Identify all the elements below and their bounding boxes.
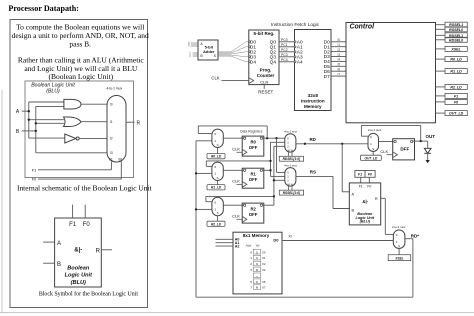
svg-text:I7: I7 <box>337 72 340 76</box>
select label R0_LD <box>207 154 225 159</box>
wire Q0 down to RS in0 <box>277 138 285 172</box>
wire R2 feedback top <box>206 195 274 197</box>
junction OUT <box>420 140 422 142</box>
svg-text:RS: RS <box>310 169 316 174</box>
svg-text:R: R <box>96 248 101 254</box>
wire B stub <box>43 262 55 264</box>
svg-text:&|-: &|- <box>74 248 82 254</box>
wires PC0-PC4 <box>279 38 295 62</box>
svg-text:X0: X0 <box>262 250 266 254</box>
svg-text:1: 1 <box>250 256 252 260</box>
svg-text:I1: I1 <box>337 43 340 47</box>
control output OUT_LD <box>445 111 467 116</box>
svg-text:3: 3 <box>250 268 252 272</box>
wire CLK R2 <box>237 218 243 220</box>
wire control RSSEL1 <box>436 24 446 26</box>
svg-text:F1: F1 <box>69 222 77 228</box>
control output RSSEL0 <box>445 27 467 32</box>
program counter register U-pc <box>249 30 279 85</box>
wire bottom loop <box>196 296 413 298</box>
wire control F0 <box>436 101 446 103</box>
select label RDSEL <box>279 156 303 161</box>
svg-text:R0_LD: R0_LD <box>211 155 222 159</box>
junction A-OR <box>28 119 30 121</box>
BLU block symbol U-left <box>55 218 102 287</box>
wire Q0 to RD mux <box>267 137 285 139</box>
LED indicator <box>424 141 431 163</box>
svg-text:Prog.: Prog. <box>260 67 272 72</box>
clock triangle OUT <box>393 152 398 158</box>
svg-text:I2: I2 <box>337 48 340 52</box>
svg-text:B: B <box>57 262 61 268</box>
wire A input <box>22 110 29 112</box>
svg-text:S: S <box>398 244 400 248</box>
scan artifact left <box>1 90 3 313</box>
wire R2 mux in1 <box>196 208 212 210</box>
register R2 DFF <box>242 203 264 223</box>
svg-text:0: 0 <box>189 56 191 58</box>
svg-text:1: 1 <box>256 250 258 254</box>
svg-text:D4: D4 <box>250 60 256 66</box>
svg-text:F1: F1 <box>358 173 362 177</box>
svg-text:0: 0 <box>256 286 258 290</box>
wire RD to BLU A <box>342 144 349 192</box>
input mux 2-to-1 R0 <box>212 129 223 147</box>
junction bus R1 <box>195 172 197 174</box>
wire control XSEL <box>436 48 446 50</box>
svg-text:32x8: 32x8 <box>308 93 319 98</box>
junction A <box>28 110 30 112</box>
svg-text:X3: X3 <box>262 268 266 272</box>
control output RSSEL1 <box>445 22 467 27</box>
block symbol name <box>65 265 93 286</box>
4-to-1 mux (internal BLU) <box>107 96 126 163</box>
svg-text:S0: S0 <box>118 157 122 161</box>
paragraph 2 <box>18 55 144 81</box>
svg-text:I5: I5 <box>337 63 340 67</box>
svg-text:7: 7 <box>250 286 252 290</box>
select label XSEL <box>388 255 411 261</box>
svg-text:R1_LD: R1_LD <box>211 186 222 190</box>
wire RD mux selects <box>289 151 292 156</box>
select label OUT_LD <box>361 155 382 160</box>
NOT gate <box>65 134 79 143</box>
svg-text:F0: F0 <box>368 173 372 177</box>
wire RS mux selects <box>289 185 292 190</box>
control output RDSEL0 <box>445 37 467 42</box>
wire out mux select <box>372 151 374 155</box>
svg-text:pass B.: pass B. <box>69 39 91 48</box>
svg-text:RDSEL[1:0]: RDSEL[1:0] <box>283 157 301 161</box>
wire B pass to mux I3 <box>36 152 107 154</box>
svg-text:I1: I1 <box>110 120 113 124</box>
svg-text:2-to-1 mux: 2-to-1 mux <box>368 128 382 132</box>
junction Q0 to RS <box>275 137 277 139</box>
wire R2 Q out <box>263 204 274 206</box>
BLU internal schematic title <box>31 82 75 94</box>
wire A riser <box>29 102 64 138</box>
svg-text:RESET: RESET <box>258 90 273 95</box>
select label RSSEL <box>279 190 303 195</box>
wire R1 Q out <box>263 169 271 171</box>
wire R stub <box>101 249 112 251</box>
junction bus R2 <box>195 208 197 210</box>
control output R1_LD <box>445 69 467 74</box>
pc clock triangle <box>249 78 254 84</box>
wire B to OR <box>36 122 64 124</box>
wire control RSSEL0 <box>436 28 446 30</box>
svg-text:(BLU): (BLU) <box>71 280 86 286</box>
svg-text:X1: X1 <box>262 256 266 260</box>
svg-text:Instruction: Instruction <box>301 99 325 104</box>
svg-text:DFF: DFF <box>249 212 258 217</box>
scan artifact bottom <box>0 312 474 314</box>
svg-text:CLK: CLK <box>232 179 240 184</box>
control output F1 <box>445 93 467 98</box>
svg-text:B: B <box>16 129 20 135</box>
control output R2_LD <box>445 84 467 89</box>
svg-text:S: S <box>214 54 217 58</box>
svg-text:R: R <box>375 197 378 201</box>
wire B input <box>22 130 36 132</box>
junction B-OR <box>35 122 37 124</box>
svg-text:Boolean: Boolean <box>67 265 90 271</box>
svg-text:Val: Val <box>256 243 260 247</box>
wire BLU R out <box>381 198 394 234</box>
svg-text:5-bit Reg.: 5-bit Reg. <box>254 31 275 36</box>
svg-text:RSSEL0: RSSEL0 <box>449 28 463 32</box>
svg-text:I6: I6 <box>337 68 340 72</box>
svg-text:Adder: Adder <box>203 49 215 54</box>
svg-text:PC2: PC2 <box>281 48 288 52</box>
svg-text:1: 1 <box>256 262 258 266</box>
svg-text:(BLU): (BLU) <box>360 220 371 224</box>
wire RD* writeback bus <box>195 141 197 297</box>
data memory U-mem 8x1 <box>233 232 282 294</box>
control unit U-ctl <box>346 23 436 123</box>
wire control R0_LD <box>436 58 446 60</box>
register R0 DFF <box>242 136 264 156</box>
wire RS out <box>296 176 349 208</box>
wire R0 mux in0 <box>198 133 212 135</box>
svg-text:PC3: PC3 <box>281 53 288 57</box>
svg-text:F0: F0 <box>32 178 36 182</box>
svg-text:0: 0 <box>256 268 258 272</box>
svg-text:(BLU): (BLU) <box>46 89 60 95</box>
wire NOT in <box>29 137 65 139</box>
output mux <box>368 133 379 151</box>
svg-text:...: ... <box>256 274 259 278</box>
svg-text:OUT: OUT <box>426 134 436 139</box>
svg-text:X7: X7 <box>262 286 266 290</box>
svg-text:&|-: &|- <box>362 199 368 204</box>
svg-text:R1_LD: R1_LD <box>450 70 462 74</box>
junction RD branch <box>341 143 343 145</box>
svg-text:2: 2 <box>250 262 252 266</box>
BLU internal schematic frame <box>25 81 134 178</box>
read mux RD <box>285 134 296 152</box>
wire F1 select <box>38 162 111 170</box>
svg-text:S: S <box>217 143 219 147</box>
adder B input wires <box>189 52 198 58</box>
register R1 DFF <box>242 168 264 188</box>
svg-text:Memory: Memory <box>304 104 322 109</box>
wire A to OR <box>29 119 64 121</box>
select label R2_LD <box>207 221 225 226</box>
paragraph 1 <box>12 22 149 48</box>
control output F0 <box>445 99 467 104</box>
svg-text:R0_LD: R0_LD <box>450 58 462 62</box>
adder const input wires <box>188 42 198 48</box>
wire R out (internal) <box>126 121 135 123</box>
clock triangle R2 <box>242 216 247 222</box>
wire Q1 riser <box>271 142 285 176</box>
svg-text:F1: F1 <box>454 94 458 98</box>
svg-text:CLR: CLR <box>260 80 268 85</box>
wire R1 mux out <box>223 169 243 171</box>
wire control F1 <box>436 95 446 97</box>
svg-text:I3: I3 <box>337 53 340 57</box>
wire F0 select <box>38 162 121 180</box>
svg-text:A: A <box>16 109 20 115</box>
svg-text:Instruction Fetch Logic: Instruction Fetch Logic <box>271 22 320 28</box>
svg-text:PC4: PC4 <box>281 58 288 62</box>
svg-text:OUT_LD: OUT_LD <box>449 112 464 116</box>
svg-text:I3: I3 <box>110 151 113 155</box>
svg-text:A2: A2 <box>235 244 240 248</box>
svg-text:XSEL: XSEL <box>394 256 403 260</box>
wire R2 feedback riser <box>205 196 207 201</box>
wire XSEL select <box>398 248 400 254</box>
wire RD* out <box>405 239 413 298</box>
wire R0 feedback top <box>198 125 267 127</box>
svg-text:0: 0 <box>250 250 252 254</box>
wire R0 feedback riser <box>197 126 199 134</box>
junction Q2 feedback <box>273 195 275 197</box>
junction Q0 feedback <box>266 137 268 139</box>
wire R1 feedback top <box>206 160 270 162</box>
svg-text:R2: R2 <box>251 207 257 212</box>
wire control RDSEL0 <box>436 39 446 41</box>
wire control R1_LD <box>436 70 446 72</box>
svg-text:Control: Control <box>350 23 376 30</box>
svg-text:Xi: Xi <box>288 234 291 238</box>
svg-text:CLK: CLK <box>232 147 240 152</box>
svg-text:4-to-1 mux: 4-to-1 mux <box>106 86 122 90</box>
svg-text:4-to-1 mux: 4-to-1 mux <box>284 130 298 134</box>
adder U-add 5-bit <box>198 40 218 60</box>
svg-text:I0: I0 <box>337 38 340 42</box>
F1 F0 field box <box>355 171 375 178</box>
wire out mux feedback <box>361 125 420 141</box>
svg-text:S: S <box>217 176 219 180</box>
memory table <box>245 243 266 289</box>
junction Q1 feedback <box>269 160 271 162</box>
svg-text:DFF: DFF <box>249 145 258 150</box>
wire CLR down <box>263 85 265 89</box>
wire out mux to DFF <box>379 141 394 143</box>
wire R2 mux in0 <box>206 201 212 203</box>
junction Q1 <box>269 169 271 171</box>
wire CLK R1 <box>237 183 243 185</box>
svg-text:F0: F0 <box>367 184 371 188</box>
svg-text:S: S <box>372 147 374 151</box>
svg-text:DFF: DFF <box>400 147 409 152</box>
output register DFF <box>393 139 415 160</box>
wire Xi to XSEL <box>282 240 393 242</box>
clock triangle R0 <box>242 149 247 155</box>
svg-text:F0: F0 <box>83 222 91 228</box>
wire CLK R0 <box>237 151 243 153</box>
svg-text:RD: RD <box>309 137 316 142</box>
svg-text:F0: F0 <box>454 100 458 104</box>
svg-text:RDSEL0: RDSEL0 <box>449 38 463 42</box>
svg-text:Logic Unit: Logic Unit <box>65 273 93 279</box>
svg-text:6: 6 <box>250 280 252 284</box>
svg-text:RSSEL[1:0]: RSSEL[1:0] <box>283 191 301 195</box>
wires memory address stubs <box>216 239 234 246</box>
svg-text:OUT_LD: OUT_LD <box>365 156 378 160</box>
svg-text:R2_LD: R2_LD <box>211 222 222 226</box>
svg-text:X2: X2 <box>262 262 266 266</box>
svg-text:I4: I4 <box>337 58 340 62</box>
svg-text:B: B <box>200 54 203 58</box>
wire A stub <box>43 241 55 243</box>
wire R0 select <box>217 148 219 154</box>
clock triangle R1 <box>242 182 247 188</box>
junction RD a <box>304 143 306 145</box>
svg-text:A4: A4 <box>297 60 303 66</box>
wire R0 Q out <box>263 137 268 139</box>
AND gate <box>64 99 81 109</box>
svg-text:S: S <box>217 211 219 215</box>
instruction memory U-imem <box>295 30 332 111</box>
svg-text:Addr: Addr <box>245 243 252 247</box>
svg-text:1: 1 <box>256 280 258 284</box>
svg-text:I0: I0 <box>110 103 113 107</box>
svg-text:RD*: RD* <box>411 234 419 239</box>
wire Q2 riser <box>274 146 285 205</box>
control output RDSEL1 <box>445 33 467 38</box>
svg-text:A: A <box>200 42 203 46</box>
svg-text:2-to-1 mux: 2-to-1 mux <box>392 225 406 229</box>
svg-text:1: 1 <box>256 256 258 260</box>
svg-text:I2: I2 <box>110 137 113 141</box>
svg-text:1: 1 <box>188 46 190 48</box>
svg-text:CLK: CLK <box>211 76 219 81</box>
wire R1 feedback riser <box>205 161 207 167</box>
wire R2 mux out <box>223 204 243 206</box>
svg-text:8x1 Memory: 8x1 Memory <box>243 233 270 238</box>
result mux XSEL <box>393 230 405 248</box>
wire Q out <box>413 140 428 142</box>
wire control R2_LD <box>436 86 446 88</box>
control output XSEL <box>445 46 467 51</box>
svg-text:PC0: PC0 <box>281 38 288 42</box>
svg-text:A: A <box>352 192 355 196</box>
svg-text:R2_LD: R2_LD <box>450 85 462 89</box>
wire R1 mux in1 <box>196 172 212 174</box>
wire RD out <box>296 143 368 145</box>
wire R0 mux out <box>223 137 243 139</box>
svg-text:(Boolean Logic Unit): (Boolean Logic Unit) <box>49 72 114 81</box>
wire CLK to pc <box>222 80 249 82</box>
svg-text:R: R <box>136 120 140 126</box>
svg-text:Boolean Logic Unit: Boolean Logic Unit <box>31 82 75 88</box>
svg-text:R0: R0 <box>251 140 257 145</box>
svg-text:F1: F1 <box>359 184 363 188</box>
wire F0 stub <box>84 205 86 218</box>
wire OR out <box>81 121 107 123</box>
svg-text:DFF: DFF <box>249 177 258 182</box>
svg-text:Data Registers: Data Registers <box>240 129 263 133</box>
adder sum fan-out wires <box>218 42 248 62</box>
svg-text:Block Symbol for the Boolean L: Block Symbol for the Boolean Logic Unit <box>39 291 139 298</box>
wire AND out <box>81 103 107 105</box>
wire F0 to BLU <box>368 177 370 183</box>
wire F1 stub <box>72 205 74 218</box>
svg-text:R1: R1 <box>251 172 257 177</box>
wire B riser <box>36 106 64 152</box>
svg-text:X6: X6 <box>262 280 266 284</box>
svg-text:A: A <box>57 241 61 247</box>
wire CLK OUT <box>387 154 393 156</box>
junction B <box>35 130 37 132</box>
input mux 2-to-1 R1 <box>212 162 223 180</box>
svg-text:F1: F1 <box>32 168 36 172</box>
wire NOT out <box>79 137 107 139</box>
svg-text:S1: S1 <box>109 157 113 161</box>
wire F1 to BLU <box>360 177 362 183</box>
wire R0 mux in1 <box>196 140 212 142</box>
svg-text:XSEL: XSEL <box>450 47 460 51</box>
input mux 2-to-1 R2 <box>212 197 223 215</box>
OR gate <box>64 117 82 127</box>
wire control OUT_LD <box>436 112 446 114</box>
svg-text:Internal schematic of the Bool: Internal schematic of the Boolean Logic … <box>17 184 153 193</box>
wires I0-I7 to control <box>331 38 346 76</box>
wire Q0 feedback up <box>266 126 268 138</box>
BLU unit U-blu <box>349 183 380 225</box>
svg-text:PC1: PC1 <box>281 43 288 47</box>
svg-text:Counter: Counter <box>257 73 275 78</box>
svg-text:D7: D7 <box>324 74 330 80</box>
svg-text:B: B <box>352 208 355 212</box>
svg-text:Q4: Q4 <box>270 60 277 66</box>
select label R1_LD <box>207 185 225 190</box>
svg-text:4-to-1 mux: 4-to-1 mux <box>284 163 298 167</box>
svg-text:CLK: CLK <box>232 214 240 219</box>
junction Q2 RS <box>273 179 275 181</box>
wire R1 mux in0 <box>206 165 212 167</box>
left column frame <box>10 20 148 308</box>
wire R1 select <box>217 181 219 185</box>
wire control RDSEL1 <box>436 34 446 36</box>
svg-text:CLK: CLK <box>380 149 388 154</box>
control output R0_LD <box>445 57 467 62</box>
svg-text:Processor Datapath:: Processor Datapath: <box>8 4 79 13</box>
read mux RS <box>285 168 296 187</box>
wire R2 select <box>217 216 219 222</box>
svg-text:D0: D0 <box>273 238 279 243</box>
